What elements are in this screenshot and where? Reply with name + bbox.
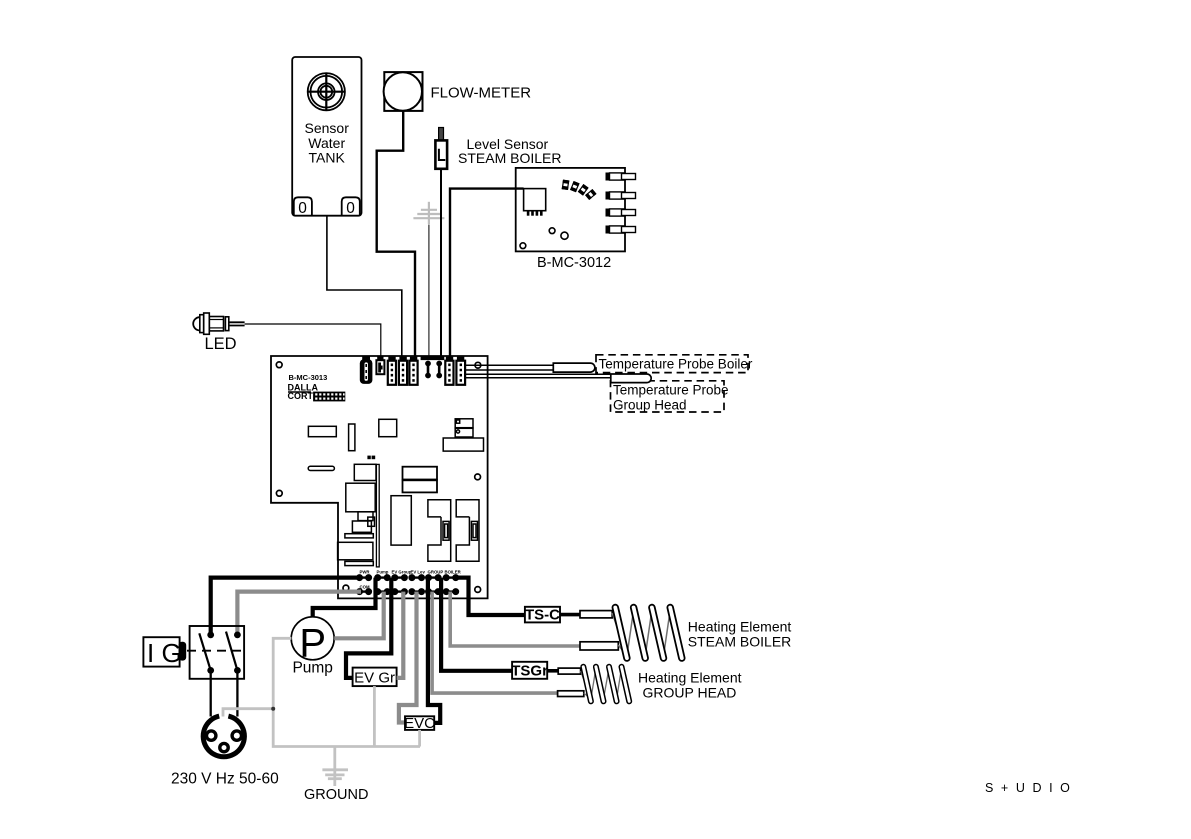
wires PCB to temperature probes xyxy=(465,365,611,378)
level sensor symbol xyxy=(435,128,447,169)
PCB top connector C xyxy=(409,357,417,385)
PCB vertical card xyxy=(376,464,379,567)
earth net light gray xyxy=(223,638,420,786)
svg-text:TANK: TANK xyxy=(309,150,346,166)
wire TS-C to coil xyxy=(560,613,581,617)
wire PWR black to switch xyxy=(211,578,361,635)
svg-text:Heating Element: Heating Element xyxy=(688,619,792,635)
PCB component IC square xyxy=(379,419,397,436)
B-MC-3012 right pins xyxy=(606,173,636,234)
switch contact dots xyxy=(207,632,241,674)
PCB top connector D xyxy=(445,357,453,385)
svg-text:LED: LED xyxy=(205,335,237,353)
wire tank to PCB xyxy=(327,216,402,357)
svg-text:GROUND: GROUND xyxy=(304,787,368,803)
PCB pin header xyxy=(313,392,345,402)
wire TS-C black xyxy=(456,578,525,615)
PCB arrow pins bar xyxy=(421,356,445,360)
PCB terminal labels top row xyxy=(360,570,462,575)
PCB transformer stack xyxy=(338,464,376,565)
tank sensor symbol xyxy=(308,73,345,110)
PCB arrow pin 2 xyxy=(437,361,442,378)
PCB top connector USB xyxy=(360,356,373,384)
svg-text:Pump: Pump xyxy=(292,660,333,677)
svg-text:EV Group: EV Group xyxy=(392,570,412,575)
svg-text:Temperature Probe: Temperature Probe xyxy=(613,382,729,397)
svg-text:I G: I G xyxy=(147,638,182,668)
PCB top connector B xyxy=(399,357,407,385)
wire flow-meter to PCB xyxy=(377,111,415,357)
wire TSGr black xyxy=(441,578,512,671)
tank label text xyxy=(305,120,350,166)
svg-text:GROUP: GROUP xyxy=(428,570,444,575)
svg-text:GROUP HEAD: GROUP HEAD xyxy=(643,685,737,701)
PCB component top-right stacked xyxy=(443,419,483,451)
wire EV Gr black xyxy=(346,578,391,678)
wire pump gray xyxy=(334,592,384,639)
svg-text:EV Lev: EV Lev xyxy=(411,570,426,575)
svg-text:Temperature Probe Boiler: Temperature Probe Boiler xyxy=(599,356,753,371)
svg-text:BOILER: BOILER xyxy=(445,570,462,575)
LED symbol xyxy=(193,313,244,334)
switch link dashed line xyxy=(187,650,242,652)
EV Gr box xyxy=(353,668,397,687)
PCB component R2 vertical xyxy=(349,424,355,451)
steam coil terminal tubes xyxy=(580,611,612,618)
PCB terminal pairs bottom row xyxy=(357,589,459,595)
PCB top connector RJ xyxy=(376,356,384,374)
svg-text:FLOW-METER: FLOW-METER xyxy=(431,85,532,102)
B-MC-3012 SMD resistors xyxy=(562,180,595,199)
tank terminal 0 left xyxy=(294,197,312,215)
PCB terminal pairs top row xyxy=(357,575,459,581)
svg-text:PWR: PWR xyxy=(360,570,371,575)
wire EVC gray xyxy=(399,592,417,723)
pump circle xyxy=(291,617,334,660)
svg-text:S+UDIO: S+UDIO xyxy=(985,781,1078,795)
switch box xyxy=(190,626,245,679)
svg-text:TS-C: TS-C xyxy=(525,607,560,624)
svg-text:EV Gr: EV Gr xyxy=(354,669,395,686)
wire group coil gray xyxy=(432,592,558,694)
temperature probe boiler body xyxy=(553,363,595,372)
svg-text:0: 0 xyxy=(298,200,307,217)
group coil terminal tubes xyxy=(558,668,580,674)
I G box xyxy=(143,637,179,666)
flow-meter symbol xyxy=(384,72,423,111)
svg-text:EVC: EVC xyxy=(404,715,435,732)
sensor water tank box xyxy=(292,57,361,216)
plug 230V xyxy=(203,716,244,757)
svg-text:230 V Hz 50-60: 230 V Hz 50-60 xyxy=(171,771,279,788)
wire COM gray to switch xyxy=(237,592,361,635)
wire top ground to PCB xyxy=(428,225,430,358)
I G connector blob xyxy=(179,642,187,661)
PCB mounting holes xyxy=(276,362,480,592)
dashed box temperature probe group head xyxy=(611,381,725,412)
svg-text:Group Head: Group Head xyxy=(613,397,687,412)
svg-text:0: 0 xyxy=(346,200,355,217)
wires switch to plug xyxy=(211,670,238,716)
group coil back strands xyxy=(581,668,622,699)
B-MC-3012 left connector xyxy=(524,189,546,211)
wire LED to PCB xyxy=(245,324,381,357)
wire level sensor to PCB xyxy=(440,169,442,357)
B-MC-3012 holes xyxy=(520,228,568,249)
PCB center tall rect xyxy=(391,496,411,545)
svg-text:Pump: Pump xyxy=(377,570,389,575)
PCB two wide rects xyxy=(403,467,438,480)
earth junction dot xyxy=(271,707,275,711)
svg-text:STEAM BOILER: STEAM BOILER xyxy=(458,150,561,166)
dashed box temperature probe boiler xyxy=(596,355,748,373)
PCB B-MC-3013 outline xyxy=(271,356,488,598)
PCB top connector E xyxy=(456,357,465,385)
steam coil loops xyxy=(615,608,682,659)
PCB relay 2 xyxy=(456,500,479,562)
TS-C box xyxy=(525,607,560,623)
PCB component pill xyxy=(308,466,334,470)
svg-text:B-MC-3013: B-MC-3013 xyxy=(289,373,328,382)
svg-text:B-MC-3012: B-MC-3012 xyxy=(537,255,611,271)
PCB arrow pin 1 xyxy=(426,361,431,378)
temperature probe group body xyxy=(611,374,651,383)
wire EV Gr gray xyxy=(397,592,404,678)
svg-text:Heating Element: Heating Element xyxy=(638,670,742,686)
svg-text:Sensor: Sensor xyxy=(305,120,350,136)
PCB tiny label xyxy=(367,456,375,460)
B-MC-3012 board outline xyxy=(516,168,625,252)
wire TSGr to coil xyxy=(547,669,559,673)
top ground symbol (light gray) xyxy=(413,202,444,224)
wire EVC black xyxy=(428,578,440,723)
TSGr box xyxy=(512,662,547,679)
steam coil back strands xyxy=(612,610,670,656)
wire B-MC-3012 to PCB xyxy=(450,189,524,357)
svg-text:TSGr: TSGr xyxy=(511,663,548,680)
wire steam coil gray xyxy=(450,592,581,646)
wire pump black xyxy=(313,578,376,617)
switch blades xyxy=(199,632,237,671)
PCB relay 1 xyxy=(428,500,451,562)
svg-text:STEAM BOILER: STEAM BOILER xyxy=(688,634,791,650)
PCB top connector A xyxy=(388,357,396,385)
group coil loops xyxy=(583,667,629,702)
tank terminal 0 right xyxy=(342,197,360,215)
B-MC-3012 connector pins xyxy=(527,211,543,216)
PCB component R1 xyxy=(308,426,336,436)
EVC box xyxy=(405,716,434,730)
